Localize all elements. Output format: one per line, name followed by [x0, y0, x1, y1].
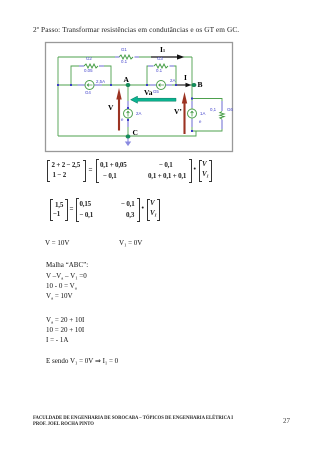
- label G2: [86, 56, 92, 61]
- leads of right resistor: [221, 101, 223, 129]
- wire B-loop right: [192, 99, 222, 132]
- label e (middle source): [121, 117, 123, 122]
- ground at C: [127, 139, 129, 142]
- wire left: [57, 57, 59, 136]
- label G4: [85, 90, 91, 95]
- body text lines: [45, 239, 69, 247]
- label 0.05: [84, 68, 93, 73]
- node B: [192, 83, 196, 87]
- equation 2: [50, 199, 53, 222]
- leads of source 2A (middle): [127, 101, 129, 127]
- figure frame: [46, 43, 233, 152]
- wire node row A-B: [58, 84, 192, 86]
- node C: [126, 135, 130, 139]
- label 2A (row source): [170, 78, 175, 83]
- arrow I1: [151, 56, 178, 58]
- label 0,1 (right resistor): [210, 107, 216, 112]
- arrow V (red, left): [118, 99, 120, 131]
- node label A: [124, 75, 129, 84]
- label V': [174, 107, 182, 116]
- leads of resistor G3: [148, 65, 174, 67]
- label G3: [157, 56, 163, 61]
- resistor G2: [84, 64, 98, 68]
- leads of source 2,5A: [78, 84, 103, 86]
- label e (1A source): [199, 119, 201, 124]
- junction squares: [57, 84, 193, 132]
- node label C: [133, 128, 138, 137]
- arrow I into node B: [177, 84, 186, 86]
- leads of resistor G1: [115, 56, 139, 58]
- label I1: [160, 45, 165, 54]
- label G6: [227, 107, 233, 112]
- label I: [184, 73, 187, 82]
- label 0.1 (G3): [156, 68, 162, 73]
- current source 2,5A: [85, 81, 94, 90]
- wire right vertical: [191, 57, 193, 131]
- current source 2A (middle): [124, 109, 133, 118]
- wire subloop G3: [147, 66, 176, 85]
- node label B: [198, 80, 203, 89]
- label 1A: [200, 111, 205, 116]
- wire bottom: [58, 131, 196, 136]
- header title: [33, 25, 239, 34]
- current source 1A: [188, 109, 197, 118]
- label G5: [153, 89, 159, 94]
- arrow Va (teal, leftward): [131, 96, 177, 103]
- leads of resistor G2: [79, 65, 104, 67]
- arrow V' (red, right): [183, 103, 185, 134]
- leads of source 2A (row): [150, 84, 172, 86]
- resistor right branch: [220, 112, 224, 120]
- footer: [33, 416, 233, 421]
- wire subloop G2: [71, 66, 111, 85]
- label 0.1 (G1): [121, 59, 127, 64]
- label Va: [144, 88, 152, 97]
- current source 2A (row): [157, 81, 166, 90]
- label V: [108, 103, 113, 112]
- label 2A (middle source): [136, 111, 141, 116]
- label G1: [121, 47, 127, 52]
- resistor G1: [119, 55, 133, 59]
- node A: [126, 83, 130, 87]
- wire top: [58, 56, 192, 58]
- resistor G3: [154, 64, 168, 68]
- label 2,5A: [96, 79, 105, 84]
- leads of source 1A: [191, 101, 193, 127]
- wire middle branch: [127, 85, 129, 136]
- equation 1: [47, 160, 50, 183]
